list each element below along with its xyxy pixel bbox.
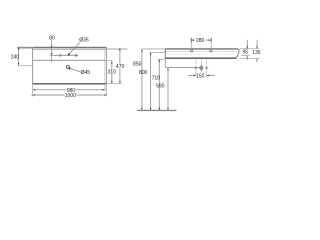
bottom left extension line: [32, 85, 34, 97]
tap hole cross mark right: [75, 54, 77, 57]
drain connection vertical line: [200, 65, 202, 72]
dimension 310 down arrow: [111, 81, 113, 84]
dimension 590 line: [167, 68, 169, 110]
dimension 135 line lower: [256, 58, 258, 62]
svg-text:135: 135: [252, 50, 261, 56]
dimension 1000 left arrow: [33, 94, 36, 96]
dimension 1000 line left: [31, 94, 65, 96]
dimension 710 bottom arrow: [159, 108, 161, 111]
dimension 240 top arrow: [18, 47, 20, 50]
top edge left extension line: [17, 47, 32, 49]
svg-text:590: 590: [156, 84, 165, 90]
dimension 590 top arrow: [167, 68, 169, 71]
svg-text:240: 240: [11, 54, 20, 60]
basin bottom edge (plan view): [32, 83, 107, 85]
dimension 310 line upper: [111, 61, 113, 70]
side view front edge curve: [235, 49, 240, 58]
side view inner rim line: [166, 51, 237, 53]
dimension 150 extension left: [195, 70, 197, 77]
dimension 135 down arrow: [256, 46, 258, 49]
dimension 850 top arrow: [141, 49, 143, 52]
dimension 80 upper arrow: [51, 46, 53, 48]
bottom edge right extension line: [107, 83, 123, 85]
dimension 95 up arrow: [247, 56, 249, 59]
dimension 850 line: [141, 49, 143, 110]
dimension 95 down arrow: [247, 46, 249, 49]
side view slab bottom line: [165, 57, 236, 59]
dimension 135 line upper: [256, 40, 258, 49]
dimension 80 lower arrow: [51, 53, 53, 55]
basin top edge (plan view): [33, 47, 107, 48]
basin right edge: [105, 47, 107, 84]
rim circle mark left: [191, 50, 193, 52]
top edge right extension line: [107, 49, 128, 50]
dimension 800 bottom arrow: [150, 108, 152, 111]
dimension 1000 right arrow: [104, 94, 107, 96]
dimension 240 bottom arrow: [18, 63, 20, 66]
dimension 150 line left with arrow: [188, 74, 195, 76]
leader arrowhead Ø35 (tap hole): [68, 53, 71, 56]
dimension 95 extension line: [241, 55, 250, 57]
dimension 240 extension line: [18, 65, 33, 67]
dimension 95 line upper: [246, 40, 248, 49]
supply cross left: [195, 66, 197, 69]
drain centerline: [165, 67, 200, 69]
dimension 980 line left: [33, 89, 67, 91]
dimension 280 tick left: [190, 38, 192, 43]
tap hole cross mark left: [59, 54, 61, 57]
bowl back edge right extension: [106, 60, 112, 62]
svg-text:710: 710: [152, 75, 161, 81]
side view hidden dashed line: [168, 54, 235, 56]
svg-text:800: 800: [139, 70, 148, 76]
svg-text:150: 150: [196, 74, 205, 80]
floor line: [137, 109, 176, 111]
dimension 800 extension line: [149, 51, 165, 53]
leader line for Ø35: [68, 43, 79, 55]
rim top left extension line: [141, 48, 165, 50]
dimension 150 line right with arrow: [207, 74, 214, 76]
dimension 980 left arrow: [33, 89, 36, 91]
dimension 590 bottom arrow: [167, 108, 169, 111]
dimension 980 right arrow: [102, 89, 105, 91]
dimension 710 extension line: [157, 58, 165, 60]
svg-text:850: 850: [133, 62, 142, 68]
supply stub right: [206, 59, 208, 65]
rim circle mark right: [210, 50, 212, 52]
svg-text:470: 470: [116, 64, 125, 70]
dimension 800 line: [150, 53, 152, 111]
dimension 470 line upper: [119, 48, 121, 64]
dimension 710 top arrow: [159, 59, 161, 62]
leader arrowhead Ø45 (drain): [68, 68, 71, 70]
dimension 280 line right with arrow: [205, 39, 210, 41]
dimension 800 top arrow: [150, 53, 152, 56]
dimension 470 line lower: [119, 68, 121, 83]
tap hole centerline: [50, 54, 78, 56]
leader line for Ø45: [69, 68, 81, 72]
drain connection circle: [200, 67, 203, 70]
dimension 470 down arrow: [119, 81, 121, 84]
dimension 150 extension right: [206, 70, 208, 77]
rim top right extension line: [239, 48, 258, 50]
svg-text:Ø45: Ø45: [81, 70, 91, 76]
svg-text:310: 310: [108, 70, 117, 76]
supply stub left: [195, 59, 197, 65]
dimension 240 line: [18, 47, 20, 65]
dimension 95 line lower: [246, 56, 248, 60]
supply stub middle: [200, 59, 202, 65]
drain hole circle: [66, 65, 69, 68]
svg-text:Ø35: Ø35: [79, 38, 89, 44]
svg-text:280: 280: [196, 38, 205, 44]
bowl back edge line: [33, 59, 107, 61]
dimension 135 up arrow: [256, 58, 258, 61]
dimension 470 up arrow: [119, 48, 121, 51]
dimension 280 line left with arrow: [192, 39, 195, 41]
dimension 310 line lower: [111, 74, 113, 83]
back edge continuation to drain line: [164, 59, 166, 68]
dimension 850 bottom arrow: [141, 108, 143, 111]
side view back edge: [164, 49, 166, 59]
basin inner right line: [104, 50, 106, 83]
svg-text:80: 80: [49, 36, 55, 42]
dimension 280 extension right: [210, 43, 212, 50]
svg-text:95: 95: [243, 50, 249, 56]
bottom right extension line 980: [104, 84, 106, 92]
bottom right extension line 1000: [106, 85, 108, 97]
dimension 310 up arrow: [111, 61, 113, 64]
side view rim top line: [165, 48, 237, 50]
dimension 135 extension line: [240, 57, 260, 59]
dimension 1000 line right: [76, 94, 106, 96]
basin left edge: [32, 47, 34, 84]
dimension 980 line right: [75, 89, 105, 91]
supply cross right: [206, 66, 208, 69]
svg-text:1000: 1000: [65, 93, 76, 99]
dimension 710 line: [158, 60, 160, 111]
dimension 280 extension left: [190, 43, 192, 50]
dimension 80 line: [51, 40, 53, 62]
dimension 280 tick right: [210, 38, 212, 43]
